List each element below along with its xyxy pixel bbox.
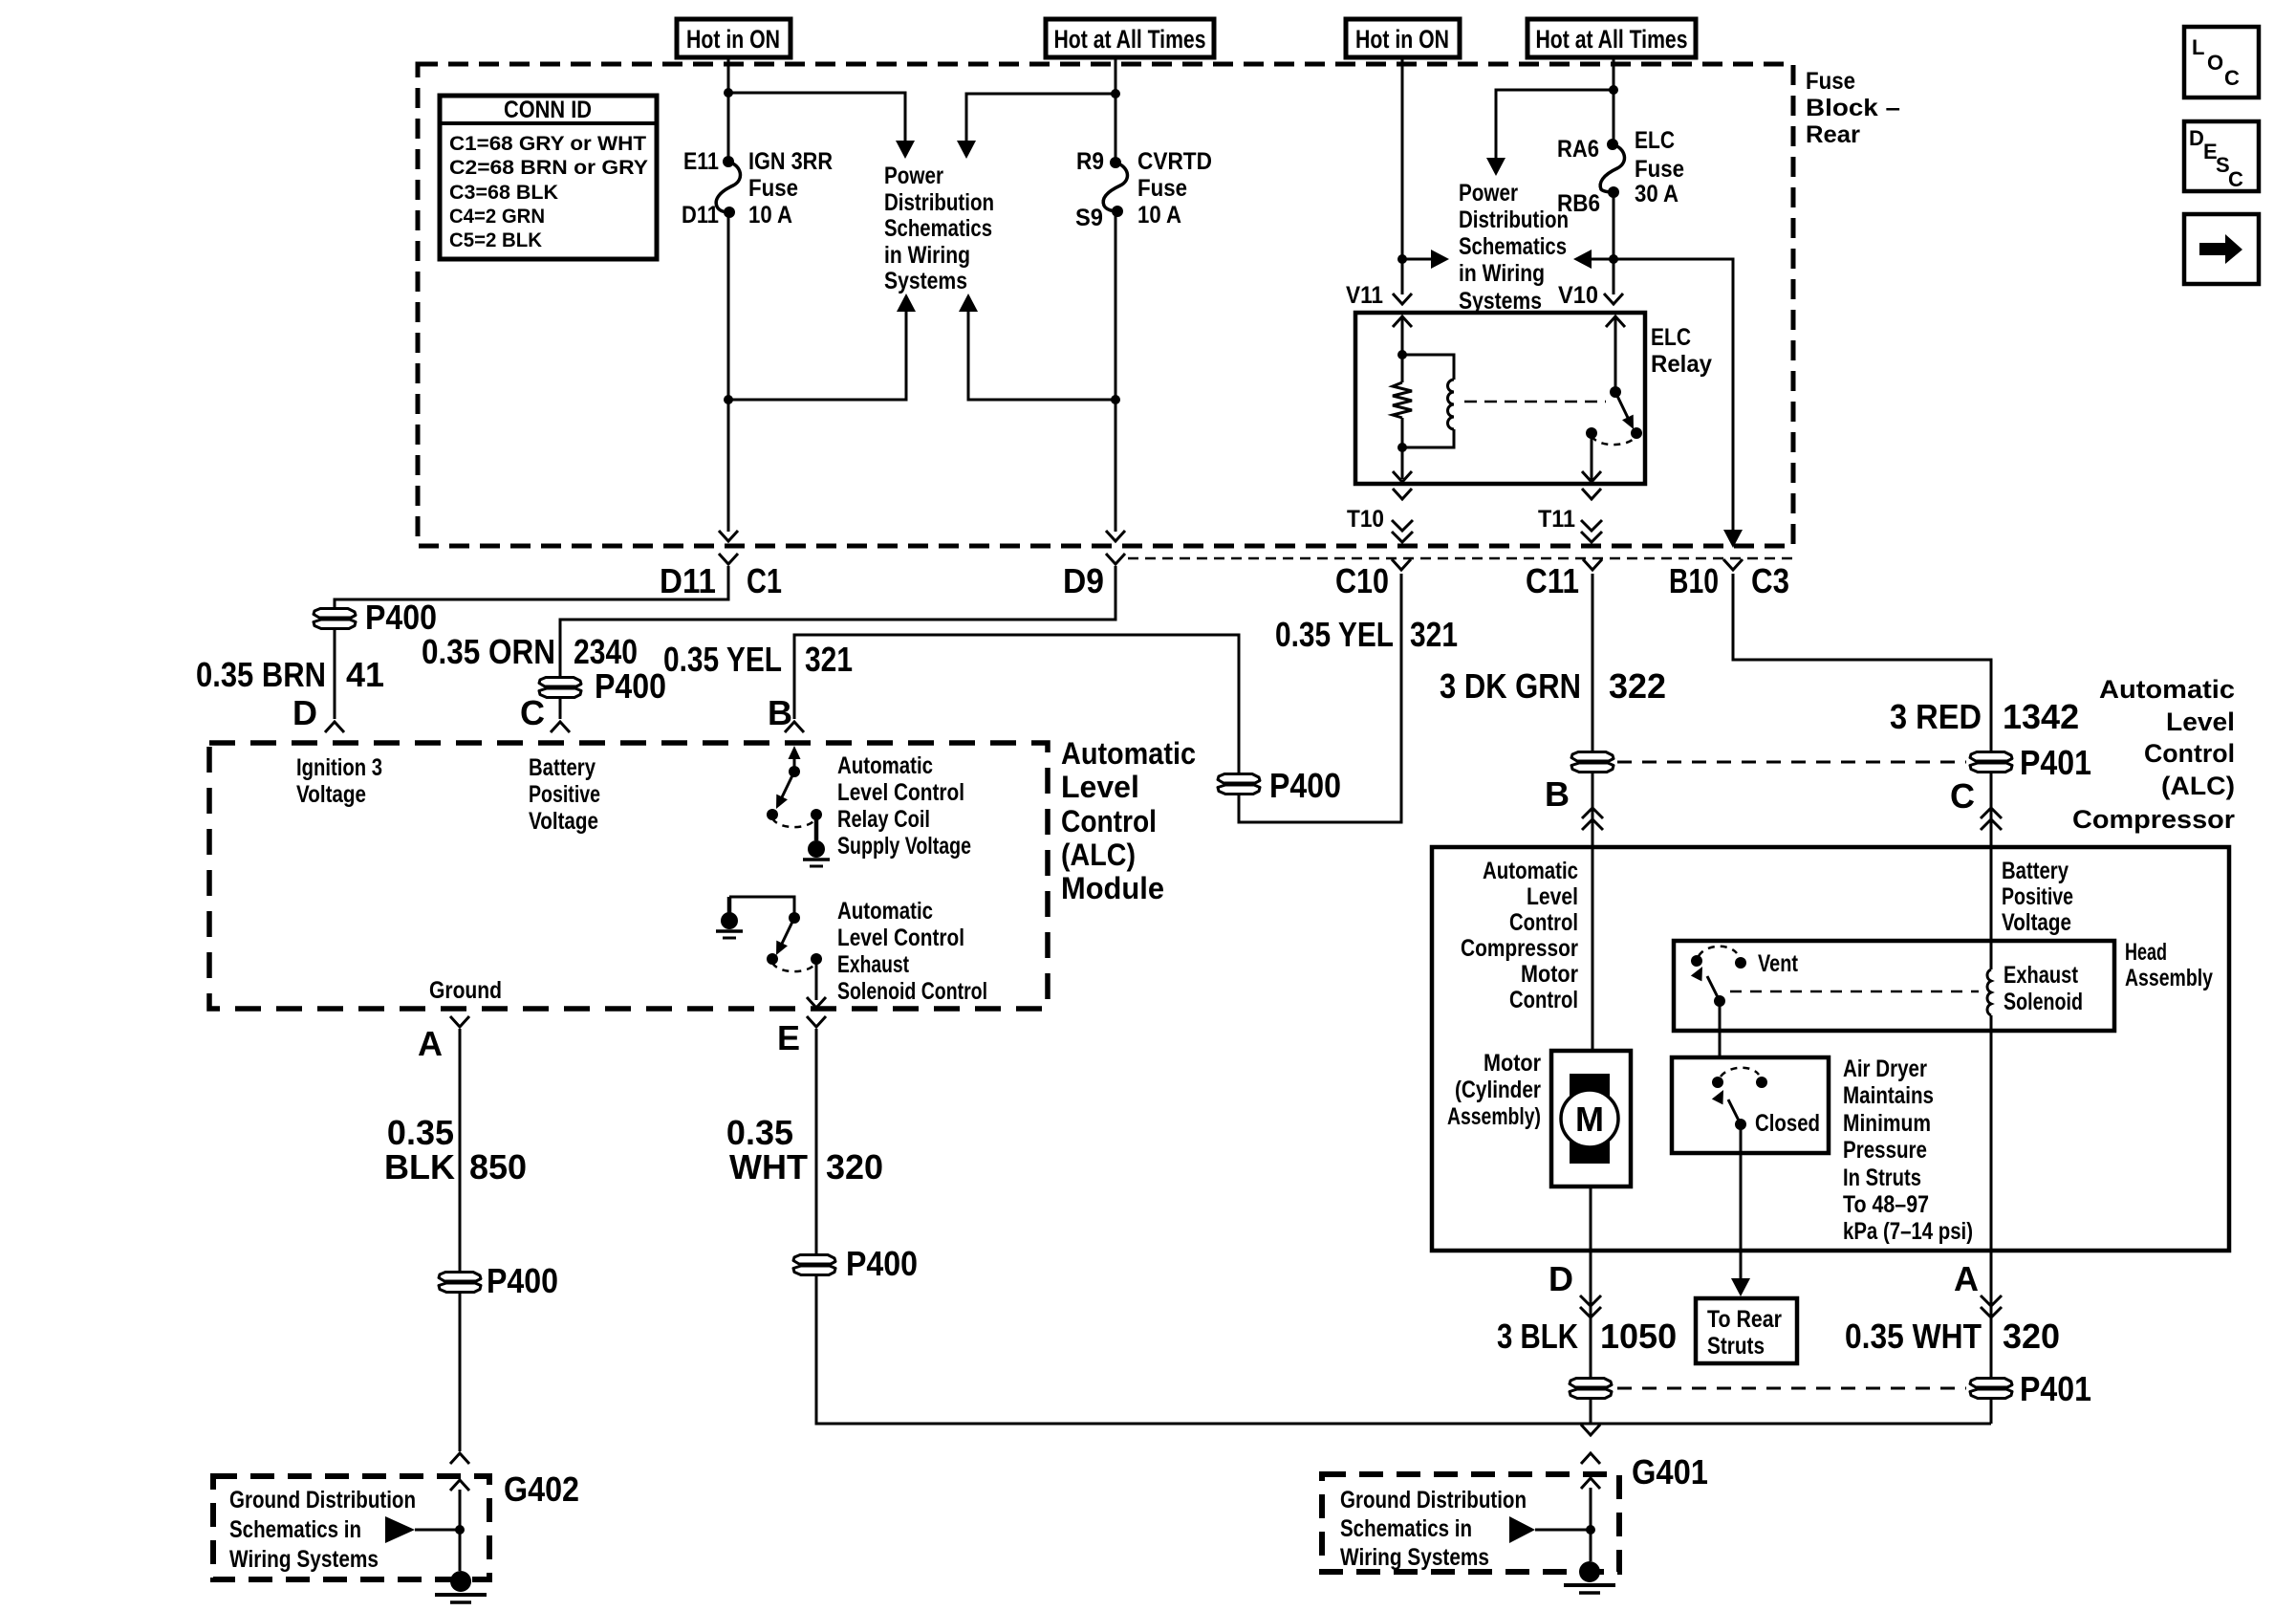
relay coil (1402, 355, 1454, 447)
svg-text:10 A: 10 A (748, 202, 792, 229)
svg-text:0.35: 0.35 (726, 1113, 793, 1152)
wire: Hot in ON 2 feed down to V11 (1401, 57, 1404, 294)
svg-text:Relay: Relay (1651, 351, 1712, 378)
svg-text:B10: B10 (1669, 561, 1719, 600)
svg-text:Relay Coil: Relay Coil (837, 806, 930, 833)
svg-text:Level Control: Level Control (837, 779, 964, 806)
svg-text:C5=2 BLK: C5=2 BLK (449, 229, 542, 251)
svg-text:T11: T11 (1538, 506, 1575, 533)
svg-text:C11: C11 (1526, 561, 1579, 600)
svg-text:Voltage: Voltage (2002, 909, 2071, 936)
svg-text:Distribution: Distribution (884, 189, 994, 216)
svg-text:Compressor: Compressor (2072, 805, 2236, 834)
svg-text:Schematics in: Schematics in (1340, 1515, 1472, 1542)
Fuse Block - Rear label (1806, 68, 1900, 148)
svg-text:WHT: WHT (729, 1147, 808, 1186)
svg-text:C4=2 GRN: C4=2 GRN (449, 205, 545, 228)
svg-text:CONN ID: CONN ID (504, 97, 592, 123)
svg-text:C3: C3 (1751, 561, 1789, 600)
svg-text:10 A: 10 A (1137, 202, 1181, 229)
svg-text:T10: T10 (1347, 506, 1384, 533)
Hot at All Times box 2 (1527, 19, 1696, 57)
svg-text:0.35: 0.35 (387, 1113, 454, 1152)
node: V10 junction and feed to B10 (1609, 254, 1618, 264)
svg-text:0.35 WHT: 0.35 WHT (1845, 1317, 1982, 1356)
svg-text:D11: D11 (660, 561, 716, 600)
svg-text:A: A (418, 1024, 443, 1063)
svg-text:Battery: Battery (529, 754, 596, 781)
wire: branch left to Power Distribution arrow (right block) (1496, 90, 1614, 159)
svg-text:L: L (2192, 35, 2204, 59)
svg-text:Exhaust: Exhaust (2004, 962, 2079, 989)
svg-text:Ground Distribution: Ground Distribution (1340, 1487, 1527, 1513)
svg-text:in Wiring: in Wiring (884, 242, 970, 269)
svg-text:321: 321 (1410, 615, 1458, 654)
wire 3 DK GRN 322: C11 to compressor B (1440, 574, 1666, 847)
text: Automatic Level Control Relay Coil Supply Voltage (837, 752, 971, 860)
text: Automatic Level Control Exhaust Solenoid Control (837, 898, 987, 1005)
svg-text:C: C (1950, 776, 1975, 816)
fuse CVRTD 10A (R9/S9) (1075, 148, 1212, 231)
svg-text:D11: D11 (682, 202, 719, 229)
relay coil branch: left vertical wire (1401, 318, 1404, 479)
svg-text:D: D (1549, 1259, 1573, 1298)
svg-text:V11: V11 (1346, 282, 1383, 309)
svg-text:Assembly): Assembly) (1447, 1103, 1541, 1130)
connector C10 (1335, 559, 1411, 600)
wire 3 RED 1342: C3 to compressor C (1733, 574, 2091, 847)
svg-text:Assembly: Assembly (2125, 965, 2213, 991)
svg-text:C3=68 BLK: C3=68 BLK (449, 181, 558, 204)
svg-text:IGN 3RR: IGN 3RR (748, 148, 833, 175)
svg-text:Hot at All Times: Hot at All Times (1536, 25, 1688, 54)
svg-text:C1: C1 (747, 561, 782, 600)
svg-text:G402: G402 (504, 1469, 579, 1509)
wire: Hot at All Times 1 feed down to D9 (1115, 57, 1117, 532)
svg-text:Power: Power (1459, 180, 1518, 207)
svg-text:P400: P400 (595, 666, 666, 706)
connector B10|C3 (1669, 559, 1789, 600)
svg-text:Wiring Systems: Wiring Systems (1340, 1544, 1489, 1571)
dashed link vent switch to solenoid (1730, 991, 1979, 993)
wire 0.35 YEL 321: C10 to module B via P400 (663, 574, 1458, 822)
svg-text:Level Control: Level Control (837, 925, 964, 951)
vent switch (1691, 947, 1799, 1057)
wire: RED inside box down to head assembly (1990, 847, 1993, 969)
svg-text:M: M (1575, 1099, 1604, 1139)
text: Power Distribution Schematics in Wiring Systems (right) (1459, 180, 1569, 315)
fuse IGN 3RR 10A (E11/D11) (682, 148, 833, 229)
svg-text:P400: P400 (1269, 766, 1341, 805)
svg-text:BLK: BLK (384, 1147, 455, 1186)
svg-text:Control: Control (1509, 909, 1578, 936)
svg-text:Fuse: Fuse (1635, 156, 1684, 183)
svg-text:RA6: RA6 (1557, 136, 1599, 163)
svg-text:E11: E11 (683, 148, 719, 175)
wire: up arrow right of Systems text (1111, 395, 1120, 404)
connector A below compressor, wire 0.35 WHT 320 (1845, 1251, 2091, 1424)
svg-text:3 RED: 3 RED (1890, 697, 1982, 736)
text: Automatic Level Control Compressor Motor Control (1461, 858, 1578, 1013)
svg-text:0.35 YEL: 0.35 YEL (663, 640, 782, 679)
relay switch (1614, 318, 1617, 392)
svg-text:Battery: Battery (2002, 858, 2069, 884)
svg-text:(Cylinder: (Cylinder (1455, 1077, 1541, 1103)
svg-text:CVRTD: CVRTD (1137, 148, 1212, 175)
svg-text:1342: 1342 (2003, 697, 2079, 736)
svg-text:Solenoid: Solenoid (2004, 989, 2083, 1015)
svg-text:Systems: Systems (884, 268, 967, 294)
pin C label: Battery Positive Voltage (529, 754, 600, 835)
wire 0.35 WHT 320: E to G401 junction (726, 1029, 1991, 1424)
wire: DK GRN inside box down to motor (1592, 847, 1594, 1051)
connector D9 (1063, 531, 1125, 600)
motor (1447, 1050, 1631, 1251)
module dashed outline (209, 743, 1048, 1009)
svg-text:Ignition 3: Ignition 3 (296, 754, 382, 781)
svg-text:Distribution: Distribution (1459, 207, 1569, 233)
svg-text:D9: D9 (1063, 561, 1104, 600)
fuse block dashed outline (418, 64, 1793, 546)
svg-text:Schematics in: Schematics in (229, 1516, 361, 1543)
connector D below compressor, wire 3 BLK 1050 (1497, 1251, 1677, 1424)
svg-text:3 DK GRN: 3 DK GRN (1440, 666, 1581, 706)
svg-text:C: C (520, 693, 545, 732)
svg-text:Automatic: Automatic (837, 898, 933, 925)
connector E below module (777, 1016, 826, 1057)
svg-text:Minimum: Minimum (1843, 1110, 1931, 1137)
svg-text:To Rear: To Rear (1707, 1306, 1782, 1333)
svg-text:ELC: ELC (1635, 127, 1675, 154)
wire: closed switch to rear struts (1740, 1153, 1743, 1279)
svg-text:Control: Control (1509, 987, 1578, 1013)
svg-text:850: 850 (469, 1147, 527, 1186)
svg-text:P400: P400 (365, 598, 437, 637)
svg-text:Compressor: Compressor (1461, 935, 1578, 962)
svg-text:322: 322 (1609, 666, 1666, 706)
svg-text:D: D (2189, 126, 2204, 150)
svg-text:1050: 1050 (1600, 1317, 1677, 1356)
svg-text:Schematics: Schematics (884, 215, 992, 242)
resistor (relay coil suppression) (1393, 382, 1412, 418)
svg-text:P400: P400 (846, 1244, 918, 1283)
svg-text:C1=68 GRY or WHT: C1=68 GRY or WHT (449, 132, 646, 155)
svg-text:Supply Voltage: Supply Voltage (837, 833, 971, 860)
svg-text:Struts: Struts (1707, 1333, 1765, 1360)
svg-text:V10: V10 (1558, 282, 1598, 309)
svg-text:C2=68 BRN or GRY: C2=68 BRN or GRY (449, 156, 648, 179)
Hot at All Times box 1 (1046, 19, 1214, 57)
svg-text:Control: Control (2144, 739, 2235, 768)
svg-text:A: A (1954, 1259, 1979, 1298)
pin D label: Ignition 3 Voltage (296, 754, 382, 808)
text: Air Dryer block (1843, 1056, 1973, 1245)
fuse ELC 30A (RA6/RB6) (1557, 127, 1684, 217)
svg-text:in Wiring: in Wiring (1459, 260, 1545, 287)
connector A below module (418, 1016, 469, 1063)
connector D11|C1 (660, 531, 782, 600)
svg-text:Positive: Positive (529, 781, 600, 808)
svg-text:D: D (292, 693, 317, 732)
svg-text:Fuse: Fuse (1806, 68, 1855, 95)
svg-text:O: O (2207, 51, 2223, 75)
svg-text:P401: P401 (2020, 1369, 2091, 1408)
svg-text:Motor: Motor (1521, 961, 1578, 988)
svg-text:0.35 YEL: 0.35 YEL (1275, 615, 1394, 654)
svg-text:Level: Level (1061, 770, 1139, 804)
svg-text:Positive: Positive (2002, 883, 2073, 910)
svg-text:In Struts: In Struts (1843, 1165, 1921, 1191)
svg-text:Automatic: Automatic (837, 752, 933, 779)
svg-text:Hot in ON: Hot in ON (686, 25, 780, 54)
svg-text:Voltage: Voltage (529, 808, 598, 835)
svg-text:Block –: Block – (1806, 95, 1900, 121)
svg-text:Solenoid Control: Solenoid Control (837, 978, 987, 1005)
wire 0.35 BLK 850: A to G402 (384, 1029, 558, 1451)
switch: ALC exhaust solenoid control (716, 897, 826, 1008)
svg-text:Rear: Rear (1806, 121, 1860, 148)
CONN ID table (440, 96, 657, 259)
dashed connector link P401 top (1617, 761, 1966, 764)
svg-text:41: 41 (346, 655, 384, 694)
compressor box (1432, 847, 2229, 1251)
wire: arrow pointing left to Systems text, and line right then down to B10 (1589, 259, 1733, 532)
svg-text:(ALC): (ALC) (1061, 838, 1136, 872)
wire: branch from Hot at All Times 1 to Power Distribution arrow (1111, 89, 1120, 98)
closed switch box (1672, 1057, 1829, 1153)
svg-text:kPa (7–14 psi): kPa (7–14 psi) (1843, 1218, 1973, 1245)
svg-text:Maintains: Maintains (1843, 1082, 1934, 1109)
svg-text:Level: Level (1527, 883, 1578, 910)
Hot in ON box 1 (677, 19, 791, 57)
svg-text:Air Dryer: Air Dryer (1843, 1056, 1927, 1082)
wire 0.35 ORN 2340: D9 to module C (422, 566, 1116, 732)
svg-text:B: B (1545, 774, 1570, 814)
svg-text:Ground Distribution: Ground Distribution (229, 1487, 416, 1513)
svg-text:Ground: Ground (429, 977, 502, 1004)
svg-text:0.35 ORN: 0.35 ORN (422, 632, 555, 671)
svg-text:Vent: Vent (1758, 950, 1799, 977)
svg-text:G401: G401 (1632, 1452, 1708, 1491)
dashed actuation link (1464, 401, 1606, 403)
svg-text:3 BLK: 3 BLK (1497, 1317, 1578, 1356)
svg-text:C: C (2224, 66, 2240, 90)
svg-text:Hot at All Times: Hot at All Times (1054, 25, 1206, 54)
svg-text:Wiring Systems: Wiring Systems (229, 1546, 379, 1573)
To Rear Struts box (1696, 1298, 1797, 1363)
svg-text:30 A: 30 A (1635, 181, 1679, 207)
dashed connector link P401 bottom (1617, 1387, 1966, 1390)
svg-text:Module: Module (1061, 871, 1164, 905)
svg-text:Power: Power (884, 163, 943, 189)
svg-text:Level: Level (2166, 708, 2235, 736)
svg-text:P401: P401 (2020, 743, 2091, 782)
svg-text:Automatic: Automatic (1483, 858, 1578, 884)
svg-text:321: 321 (805, 640, 853, 679)
svg-text:(ALC): (ALC) (2161, 772, 2235, 800)
svg-text:2340: 2340 (574, 632, 638, 671)
wire: Hot in ON 1 feed down to D11 (727, 57, 730, 532)
svg-text:320: 320 (826, 1147, 883, 1186)
svg-text:Pressure: Pressure (1843, 1137, 1927, 1164)
exhaust solenoid coil (1987, 962, 2083, 1251)
svg-text:RB6: RB6 (1557, 190, 1600, 217)
svg-text:Automatic: Automatic (1061, 736, 1196, 771)
svg-text:Fuse: Fuse (1137, 175, 1187, 202)
svg-text:Automatic: Automatic (2099, 675, 2235, 704)
switch: ALC relay coil supply (767, 746, 830, 866)
svg-text:320: 320 (2003, 1317, 2060, 1356)
connector row thin dashed line (1128, 557, 1793, 560)
text: Power Distribution Schematics in Wiring Systems (left) (884, 163, 994, 294)
svg-text:Motor: Motor (1484, 1050, 1541, 1077)
svg-text:Exhaust: Exhaust (837, 951, 910, 978)
svg-text:R9: R9 (1076, 148, 1104, 175)
connector C11 (1526, 559, 1602, 600)
svg-text:S9: S9 (1075, 205, 1103, 231)
svg-text:C10: C10 (1335, 561, 1389, 600)
svg-text:Control: Control (1061, 804, 1157, 838)
svg-text:C: C (2228, 167, 2243, 191)
svg-text:P400: P400 (487, 1261, 558, 1300)
svg-text:E: E (777, 1018, 800, 1057)
Hot in ON box 2 (1346, 19, 1460, 57)
wire: arrow pointing right to Power text (1402, 258, 1434, 261)
wire: up arrow from lower junction to Systems text (left) (724, 395, 733, 404)
svg-text:Schematics: Schematics (1459, 233, 1567, 260)
svg-text:Voltage: Voltage (296, 781, 366, 808)
svg-text:Head: Head (2125, 939, 2167, 966)
svg-text:Fuse: Fuse (748, 175, 798, 202)
node: junction on IGN feed top (724, 88, 733, 98)
head assembly box (1674, 939, 2213, 1031)
wire: Hot at All Times 2 feed (1613, 57, 1615, 294)
wire: branch right to Power Distribution arrow (top left) (728, 93, 905, 142)
svg-text:To 48–97: To 48–97 (1843, 1191, 1929, 1218)
wire 0.35 BRN 41: D11 to module D (196, 566, 728, 732)
svg-text:Hot in ON: Hot in ON (1355, 25, 1449, 54)
svg-text:0.35 BRN: 0.35 BRN (196, 655, 326, 694)
svg-text:Closed: Closed (1755, 1110, 1820, 1137)
text: Battery Positive Voltage (2002, 858, 2073, 936)
compressor name (2072, 675, 2236, 834)
svg-text:ELC: ELC (1651, 324, 1691, 351)
module name (1061, 736, 1196, 905)
